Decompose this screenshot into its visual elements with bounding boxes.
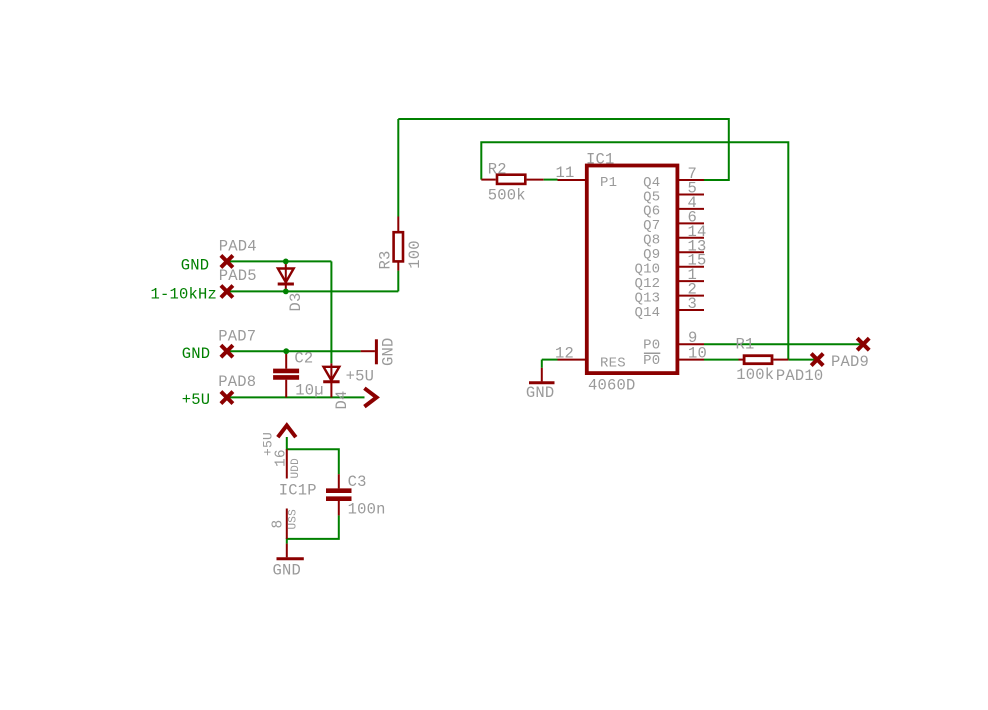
svg-text:PAD5: PAD5 <box>219 267 257 285</box>
svg-text:P1: P1 <box>600 175 617 191</box>
svg-text:D3: D3 <box>287 292 305 311</box>
svg-text:4060D: 4060D <box>588 377 636 395</box>
svg-text:D4: D4 <box>333 390 351 409</box>
svg-text:PAD8: PAD8 <box>218 373 256 391</box>
svg-text:500k: 500k <box>488 187 526 205</box>
svg-text:IC1P: IC1P <box>279 481 317 499</box>
svg-text:UDD: UDD <box>290 458 302 479</box>
svg-text:100: 100 <box>406 240 424 269</box>
svg-text:+5U: +5U <box>182 391 211 409</box>
svg-text:USS: USS <box>288 509 300 530</box>
svg-text:12: 12 <box>555 345 574 363</box>
svg-text:R3: R3 <box>377 250 395 269</box>
svg-text:P0: P0 <box>643 337 660 353</box>
svg-text:GND: GND <box>380 337 398 366</box>
svg-text:+5U: +5U <box>346 368 375 386</box>
svg-text:100n: 100n <box>348 500 386 518</box>
svg-text:C3: C3 <box>348 473 367 491</box>
svg-text:GND: GND <box>526 384 555 402</box>
svg-text:PAD9: PAD9 <box>831 353 869 371</box>
svg-text:GND: GND <box>182 345 211 363</box>
svg-text:8: 8 <box>271 520 287 529</box>
svg-text:R2: R2 <box>488 160 507 178</box>
svg-text:Q14: Q14 <box>634 305 660 321</box>
svg-text:RES: RES <box>600 355 626 371</box>
svg-text:10: 10 <box>688 345 707 363</box>
svg-text:GND: GND <box>181 257 210 275</box>
svg-text:PAD7: PAD7 <box>218 328 256 346</box>
svg-text:C2: C2 <box>294 349 313 367</box>
svg-text:GND: GND <box>273 561 302 579</box>
svg-text:PAD4: PAD4 <box>219 238 257 256</box>
svg-text:3: 3 <box>688 295 698 313</box>
svg-text:P0: P0 <box>643 353 660 369</box>
svg-text:R1: R1 <box>736 336 755 354</box>
svg-text:100k: 100k <box>736 366 774 384</box>
svg-text:PAD10: PAD10 <box>776 367 824 385</box>
svg-text:1-10kHz: 1-10kHz <box>151 286 218 304</box>
svg-text:16: 16 <box>274 449 290 467</box>
svg-text:10µ: 10µ <box>295 382 324 400</box>
svg-text:IC1: IC1 <box>586 151 615 169</box>
svg-text:11: 11 <box>556 164 575 182</box>
